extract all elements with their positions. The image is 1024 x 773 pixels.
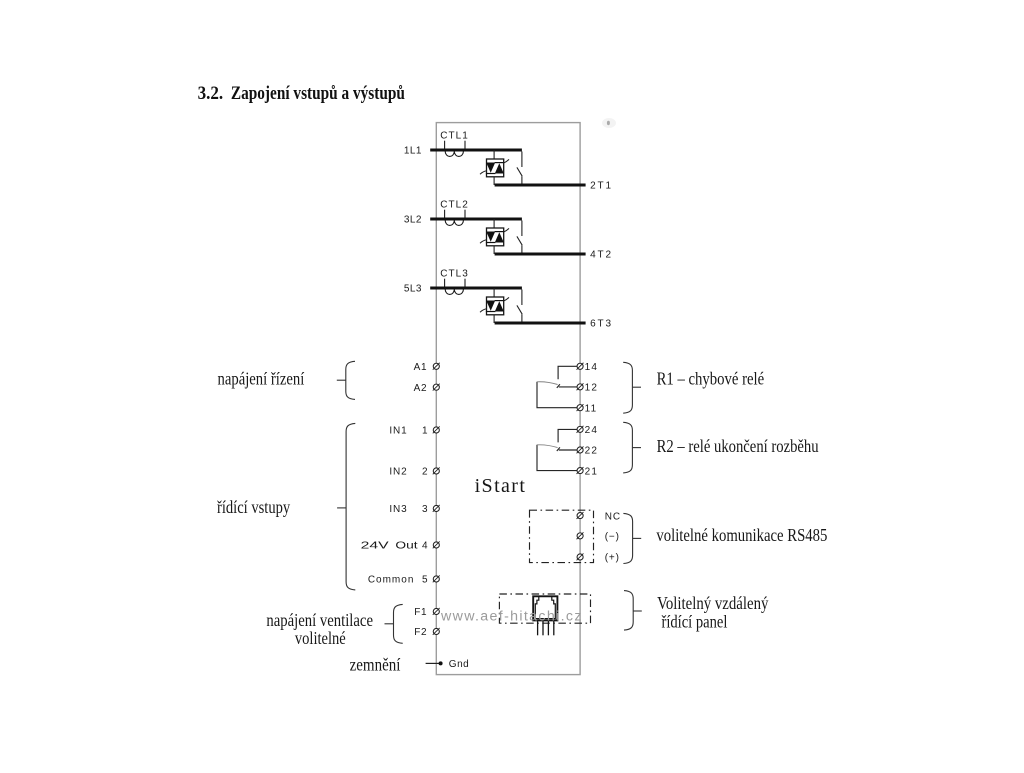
svg-text:6T3: 6T3 — [590, 319, 611, 330]
svg-text:14: 14 — [585, 362, 599, 373]
wire input 5L3 (thick) — [430, 286, 522, 289]
thyristor pair (anti-parallel SCR) 1 — [480, 159, 509, 177]
terminal 24 (R2) — [577, 426, 583, 432]
svg-text:22: 22 — [585, 446, 599, 457]
svg-text:volitelné: volitelné — [295, 628, 346, 648]
svg-text:NC: NC — [605, 512, 621, 523]
svg-text:12: 12 — [585, 383, 599, 394]
enclosure box (iStart unit outline) — [436, 123, 580, 675]
relay R1 contact wiring — [537, 366, 577, 407]
svg-text:(−): (−) — [605, 531, 620, 542]
brace napajeni ventilace — [394, 604, 403, 643]
svg-text:IN2: IN2 — [389, 467, 407, 478]
brace napajeni rizeni — [346, 361, 355, 399]
brace vzdaleny panel — [624, 591, 633, 631]
svg-text:1: 1 — [422, 426, 428, 437]
svg-text:2T1: 2T1 — [590, 181, 611, 192]
terminal 21 (R2) — [577, 468, 583, 474]
wire thyristor to output — [493, 177, 495, 185]
svg-text:řídící vstupy: řídící vstupy — [217, 497, 290, 517]
svg-text:21: 21 — [585, 466, 599, 477]
svg-text:5: 5 — [422, 575, 428, 586]
svg-text:A1: A1 — [414, 362, 428, 373]
thyristor pair (anti-parallel SCR) 3 — [480, 297, 509, 315]
terminal (−) RS485 — [577, 533, 583, 539]
svg-text:1L1: 1L1 — [404, 146, 422, 157]
svg-text:CTL2: CTL2 — [440, 199, 468, 210]
current transformer CTL2 — [445, 210, 465, 226]
RS485 option module (dash-dot box) — [530, 510, 594, 562]
relay R2 contact wiring — [537, 429, 577, 470]
wire thyristor drop — [493, 219, 495, 229]
brace RS485 — [623, 513, 632, 563]
svg-text:24: 24 — [585, 425, 599, 436]
svg-text:Volitelný vzdálený: Volitelný vzdálený — [657, 593, 769, 613]
thyristor pair (anti-parallel SCR) 2 — [480, 228, 509, 246]
remote panel option (dash-dot box) — [499, 594, 590, 623]
svg-text:Zapojení vstupů a výstupů: Zapojení vstupů a výstupů — [231, 84, 405, 104]
svg-text:R2 – relé ukončení rozběhu: R2 – relé ukončení rozběhu — [657, 436, 819, 456]
svg-text:Common: Common — [368, 575, 415, 586]
RJ connector socket — [533, 596, 557, 635]
heading 3.2 Zapojeni vstupu a vystupu — [198, 84, 405, 104]
svg-text:Out: Out — [395, 541, 417, 552]
svg-text:24V: 24V — [361, 541, 390, 552]
wire thyristor drop — [493, 150, 495, 160]
wire output 4T2 (thick) — [495, 252, 586, 255]
current transformer CTL3 — [445, 279, 465, 295]
svg-text:iStart: iStart — [475, 475, 527, 497]
wire thyristor drop — [493, 288, 495, 298]
terminal NC RS485 — [577, 513, 583, 519]
ground terminal Gnd — [426, 662, 439, 664]
wire output 2T1 (thick) — [495, 183, 586, 186]
svg-text:napájení řízení: napájení řízení — [218, 369, 305, 389]
svg-text:CTL3: CTL3 — [440, 268, 468, 279]
terminal 22 (R2) — [577, 447, 583, 453]
bypass contact 3 — [517, 290, 522, 322]
terminal 11 (R1) — [577, 405, 583, 411]
terminal 12 (R1) — [577, 384, 583, 390]
svg-text:11: 11 — [585, 403, 598, 414]
svg-text:2: 2 — [422, 467, 428, 478]
svg-text:zemnění: zemnění — [350, 654, 401, 674]
svg-text:3L2: 3L2 — [404, 215, 422, 226]
svg-text:F1: F1 — [414, 607, 427, 618]
bypass contact 1 — [517, 152, 522, 184]
svg-text:IN1: IN1 — [389, 426, 407, 437]
svg-text:Gnd: Gnd — [449, 659, 469, 670]
brace R1 — [623, 362, 632, 413]
wire thyristor to output — [493, 246, 495, 254]
wire output 6T3 (thick) — [495, 321, 586, 324]
svg-text:3: 3 — [422, 504, 428, 515]
wire input 1L1 (thick) — [430, 148, 522, 151]
svg-text:(+): (+) — [605, 552, 620, 563]
terminal 14 (R1) — [577, 363, 583, 369]
terminal (+) RS485 — [577, 554, 583, 560]
svg-text:R1 – chybové relé: R1 – chybové relé — [657, 368, 765, 388]
svg-text:CTL1: CTL1 — [440, 130, 468, 141]
faint print artifact — [602, 118, 616, 128]
bypass contact 2 — [517, 221, 522, 253]
wire input 3L2 (thick) — [430, 217, 522, 220]
svg-text:4T2: 4T2 — [590, 250, 611, 261]
svg-text:IN3: IN3 — [389, 504, 407, 515]
brace ridici vstupy — [346, 423, 355, 590]
svg-text:řídící panel: řídící panel — [662, 612, 728, 632]
svg-text:5L3: 5L3 — [404, 284, 422, 295]
svg-text:4: 4 — [422, 541, 428, 552]
current transformer CTL1 — [445, 141, 465, 157]
svg-text:volitelné komunikace RS485: volitelné komunikace RS485 — [656, 525, 827, 545]
svg-text:F2: F2 — [414, 627, 427, 638]
svg-text:A2: A2 — [414, 383, 428, 394]
svg-text:www.aef-hitachi.cz: www.aef-hitachi.cz — [440, 609, 583, 625]
svg-text:3.2.: 3.2. — [198, 84, 224, 104]
wire thyristor to output — [493, 315, 495, 323]
brace R2 — [623, 422, 632, 473]
svg-text:napájení ventilace: napájení ventilace — [266, 610, 373, 630]
